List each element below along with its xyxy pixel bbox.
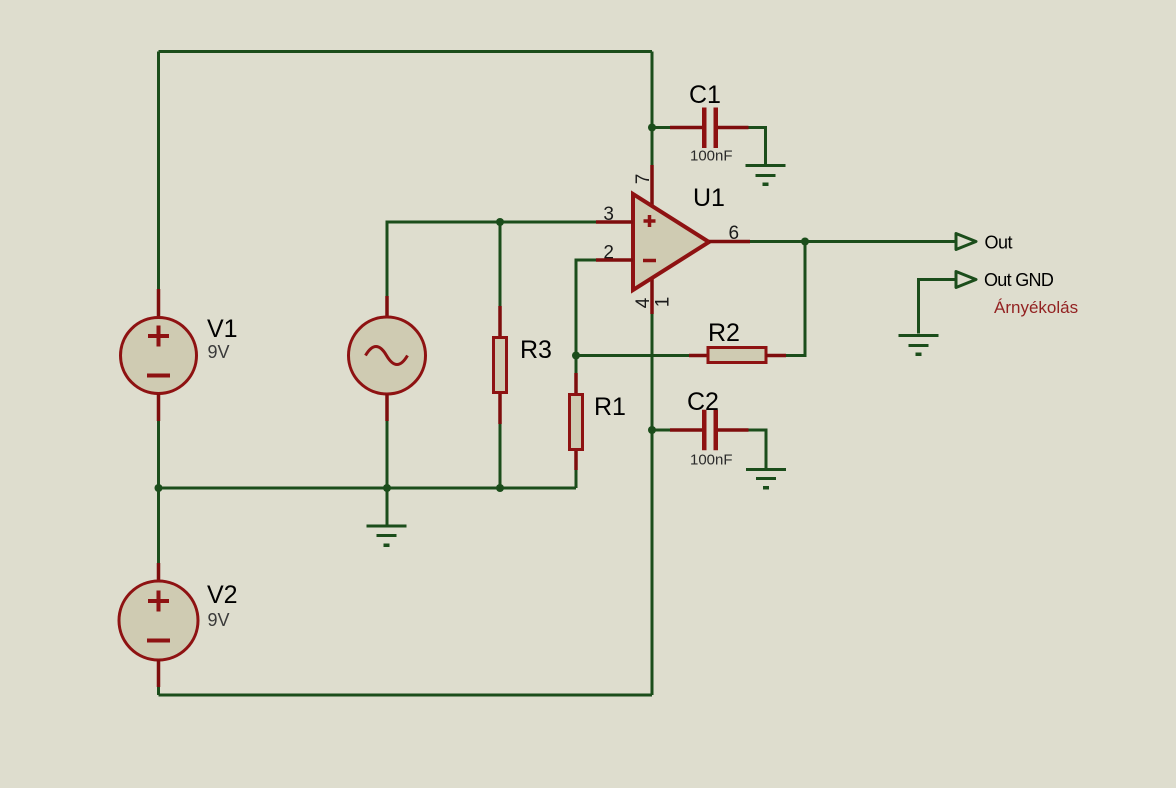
voltage source V1 — [121, 318, 197, 394]
svg-text:C2: C2 — [687, 388, 719, 416]
wire ground stub below bus — [386, 488, 389, 525]
node junction C2 tap — [648, 426, 656, 434]
svg-text:100nF: 100nF — [690, 452, 733, 469]
wire R3 upper lead — [499, 222, 502, 306]
resistor R2 — [708, 348, 766, 363]
wire R1 upper lead — [575, 356, 578, 374]
node junction left rail / ground bus — [155, 484, 163, 492]
wire pin7 column: top bus to C1 node and op-amp — [651, 52, 654, 166]
wire left rail lower segment — [157, 488, 160, 563]
ground (C1) — [746, 166, 786, 187]
wire op-amp pin4 stub — [650, 277, 654, 314]
svg-text:V1: V1 — [207, 315, 238, 343]
wire R1 bottom to ground bus — [575, 470, 578, 488]
svg-text:R1: R1 — [594, 393, 626, 421]
wire feedback to R2 — [576, 354, 689, 357]
wire inverting input net — [576, 260, 596, 356]
svg-text:Out: Out — [985, 233, 1013, 253]
node junction C1 tap — [648, 124, 656, 132]
pin R2 left (red) — [689, 354, 708, 358]
pin C2 left (red) — [670, 428, 702, 432]
wire left rail upper segment — [157, 52, 160, 290]
wire Out GND terminal to ground — [919, 280, 956, 334]
wire R2 right to output riser — [786, 242, 805, 356]
resistor R3 — [494, 338, 507, 393]
svg-text:7: 7 — [633, 174, 654, 185]
svg-text:Out GND: Out GND — [984, 270, 1054, 290]
node junction R1/R2 feedback — [572, 352, 580, 360]
svg-text:9V: 9V — [208, 342, 230, 362]
wire noninverting input net — [387, 222, 596, 296]
svg-text:4: 4 — [633, 297, 654, 308]
svg-text:C1: C1 — [689, 81, 721, 109]
op-amp U1 — [633, 194, 709, 290]
wire top bus from left rail to op-amp pin7 column — [159, 50, 653, 53]
svg-text:100nF: 100nF — [690, 148, 733, 165]
svg-text:1: 1 — [653, 297, 674, 308]
svg-text:9V: 9V — [208, 610, 230, 630]
node junction output / feedback riser — [801, 238, 809, 246]
wire bottom bus — [159, 694, 653, 697]
ground (Out GND) — [899, 336, 939, 357]
pin op-amp 3 stub (red) — [596, 220, 633, 224]
pin sine source bottom (red) — [385, 394, 389, 421]
pin R3 top (red) — [498, 306, 502, 337]
pin op-amp 6 stub (red) — [709, 240, 750, 244]
pin C2 right (red) — [718, 428, 749, 432]
svg-text:Árnyékolás: Árnyékolás — [994, 298, 1078, 317]
wire V2 to bottom bus — [157, 687, 160, 695]
node junction R3 / ground bus — [496, 484, 504, 492]
svg-text:U1: U1 — [693, 184, 725, 212]
capacitor C1 — [702, 108, 718, 149]
pin C1 right (red) — [718, 126, 749, 130]
pin C1 left (red) — [670, 126, 702, 130]
pin R1 top (red) — [574, 373, 578, 394]
pin R1 bottom (red) — [574, 451, 578, 470]
wire C2 left lead — [652, 429, 670, 432]
pin op-amp 2 stub (red) — [596, 258, 633, 262]
wire output net to terminal — [750, 240, 955, 243]
pin R3 bottom (red) — [498, 394, 502, 424]
svg-text:V2: V2 — [207, 581, 238, 609]
wire V2 bottom pin stub — [157, 660, 161, 687]
terminal Out GND — [956, 272, 976, 288]
wire V1 to ground bus — [157, 421, 160, 488]
node junction sine / ground bus — [383, 484, 391, 492]
svg-text:R2: R2 — [708, 319, 740, 347]
wire C2 right to ground — [749, 430, 767, 468]
ground (signal source) — [367, 526, 407, 547]
voltage source V2 — [119, 581, 198, 660]
terminal Out — [956, 234, 976, 250]
wire op-amp pin7 stub — [650, 165, 654, 207]
sine signal source — [349, 317, 426, 394]
wire C1 left lead — [652, 126, 670, 129]
capacitor C2 — [702, 410, 718, 451]
svg-text:R3: R3 — [520, 336, 552, 364]
wire V1 top pin stub — [157, 289, 161, 318]
pin R2 right (red) — [766, 354, 786, 358]
wire right riser from bottom bus to op-amp pin4 — [651, 314, 654, 695]
node junction R3 top tap — [496, 218, 504, 226]
ground (C2) — [746, 470, 786, 490]
wire R3 bottom to ground bus — [499, 424, 502, 488]
resistor R1 — [570, 395, 583, 450]
wire C1 right to ground — [749, 128, 766, 165]
wire ground bus horizontal — [159, 487, 577, 490]
wire V1 bottom pin stub — [157, 394, 161, 421]
pin sine source top (red) — [385, 296, 389, 318]
wire V2 top pin stub — [157, 563, 161, 582]
wire sine source to ground bus — [386, 421, 389, 488]
